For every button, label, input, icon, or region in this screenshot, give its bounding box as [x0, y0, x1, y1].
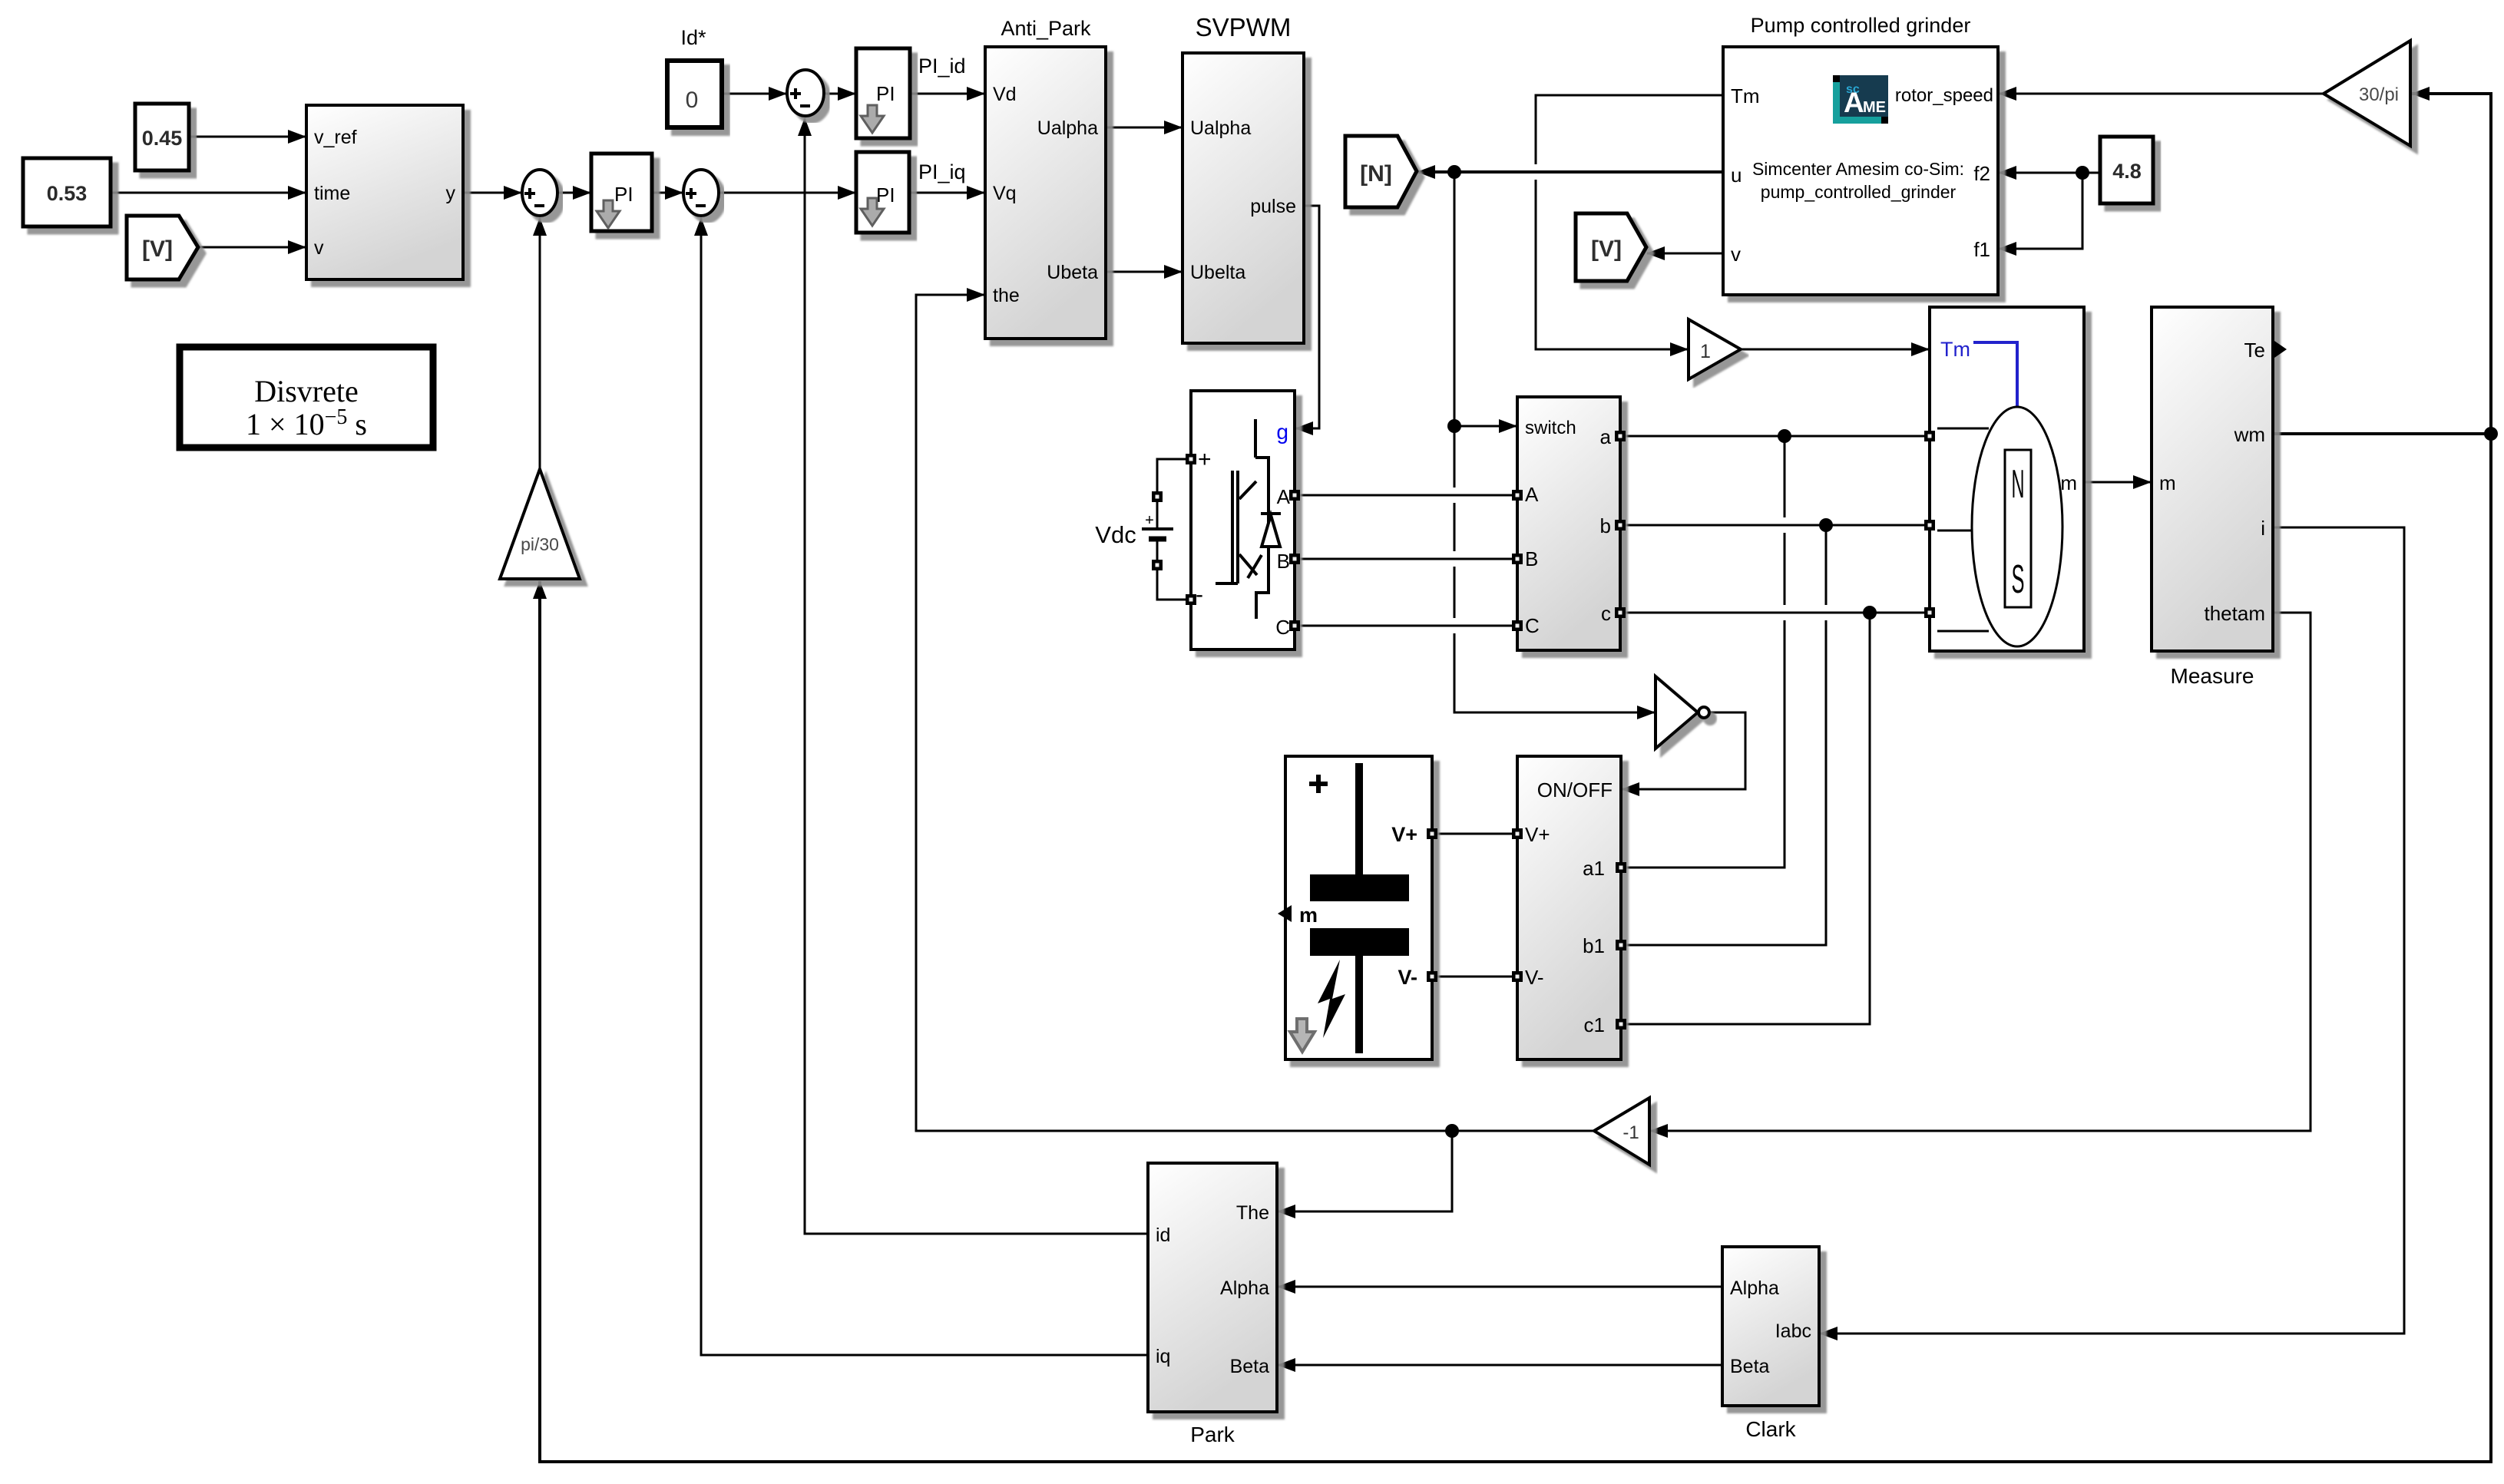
- svg-text:time: time: [314, 183, 350, 204]
- svg-text:PI_iq: PI_iq: [918, 160, 966, 183]
- svg-text:Vq: Vq: [993, 183, 1017, 204]
- svg-text:S: S: [2012, 557, 2025, 602]
- wire switch a to motor A: [1620, 435, 1930, 438]
- node switch branch junction: [1447, 419, 1461, 433]
- WIRES: [1454, 95, 1870, 1024]
- svg-text:Tm: Tm: [1731, 84, 1760, 107]
- svg-text:Iabc: Iabc: [1775, 1320, 1811, 1342]
- lightning bolt: [1318, 960, 1345, 1038]
- svg-text:A: A: [1277, 485, 1291, 508]
- gain pi/30 speed feedback: [500, 469, 580, 579]
- sum S3: [787, 70, 824, 116]
- svg-text:c1: c1: [1584, 1013, 1605, 1036]
- svg-text:Disvrete: Disvrete: [254, 374, 359, 408]
- node f2-f1 junction: [2076, 166, 2089, 180]
- wire wm up to 30/pi gain: [2412, 94, 2491, 434]
- svg-text:Ualpha: Ualpha: [1190, 117, 1251, 139]
- node c phase junction: [1863, 606, 1877, 620]
- svg-text:iq: iq: [1156, 1346, 1170, 1367]
- constant 4.8: [2100, 137, 2153, 203]
- wire y to sum1: [463, 192, 521, 194]
- wire switch b to motor B: [1620, 524, 1930, 527]
- svg-text:C: C: [1525, 614, 1540, 637]
- subsystem switch: [1517, 397, 1620, 650]
- svg-text:[V]: [V]: [1591, 236, 1622, 262]
- svg-text:wm: wm: [2234, 423, 2265, 446]
- svg-text:4.8: 4.8: [2112, 160, 2142, 183]
- svg-text:u: u: [1731, 164, 1742, 187]
- wire u output of grinder to [N] tag: [1417, 170, 1723, 174]
- wire sum2 to PI_iq: [719, 192, 855, 194]
- svg-text:i: i: [2261, 517, 2265, 540]
- PI controller PI1: [591, 154, 652, 231]
- svg-text:Anti_Park: Anti_Park: [1001, 17, 1091, 40]
- inverter bridge block: [1191, 391, 1295, 649]
- gain 1 torque: [1689, 319, 1741, 379]
- svg-text:0.45: 0.45: [142, 127, 183, 150]
- wire [V] tag to v input: [198, 246, 306, 249]
- svg-text:switch: switch: [1525, 418, 1576, 438]
- svg-text:[N]: [N]: [1360, 161, 1392, 187]
- svg-text:PI_id: PI_id: [918, 55, 966, 78]
- wire PI_iq to Vq: [909, 192, 984, 194]
- svg-text:v: v: [1731, 243, 1741, 266]
- svg-text:Alpha: Alpha: [1730, 1277, 1779, 1299]
- svg-text:c: c: [1601, 602, 1611, 625]
- svg-text:Te: Te: [2244, 339, 2265, 362]
- wire Park iq to sum2 bottom: [701, 218, 1148, 1355]
- svg-text:Ubelta: Ubelta: [1190, 262, 1245, 283]
- svg-text:ON/OFF: ON/OFF: [1537, 778, 1613, 801]
- logo AME: [1833, 75, 1888, 124]
- wire u output vertical branch (to switch and NOT gate): [1454, 172, 1655, 712]
- wire gain1 to motor Tm: [1741, 349, 1929, 351]
- svg-text:Beta: Beta: [1230, 1356, 1270, 1377]
- subsystem ON/OFF: [1517, 756, 1621, 1059]
- wire theta branch to Park The: [1278, 1131, 1452, 1211]
- svg-text:m: m: [2060, 471, 2077, 494]
- svg-text:1: 1: [1700, 341, 1711, 362]
- ON/OFF port pads: [1512, 828, 1523, 839]
- wire Vdc battery plus lead: [1157, 459, 1191, 529]
- svg-text:b: b: [1600, 514, 1611, 537]
- svg-text:v: v: [314, 237, 324, 259]
- svg-text:Clark: Clark: [1745, 1417, 1796, 1441]
- wire b1 vertical: [1621, 525, 1826, 945]
- wire Ubeta Anti_Park to SVPWM: [1106, 271, 1182, 273]
- svg-text:C: C: [1275, 616, 1290, 639]
- svg-text:ME: ME: [1863, 99, 1886, 116]
- constant 0.53: [23, 158, 111, 226]
- svg-text:Beta: Beta: [1730, 1356, 1770, 1377]
- wire wm feedback bottom loop to pi/30 gain: [540, 434, 2491, 1462]
- From tag [V] input: [127, 216, 198, 279]
- wire Ualpha Anti_Park to SVPWM: [1106, 127, 1182, 129]
- diode glyph: [1261, 514, 1281, 547]
- svg-text:0: 0: [686, 88, 699, 113]
- svg-text:Pump controlled grinder: Pump controlled grinder: [1751, 14, 1971, 37]
- svg-text:rotor_speed: rotor_speed: [1895, 85, 1993, 106]
- crossover gaps: [1454, 164, 1826, 633]
- switch port pads: [1512, 490, 1523, 501]
- svg-text:Park: Park: [1190, 1423, 1235, 1446]
- svg-text:m: m: [2159, 471, 2176, 494]
- svg-text:SVPWM: SVPWM: [1196, 13, 1292, 41]
- svg-text:f1: f1: [1973, 238, 1990, 261]
- Goto tag [N]: [1345, 136, 1417, 207]
- svg-text:V-: V-: [1398, 966, 1417, 989]
- Vdc source symbol: [1095, 512, 1173, 548]
- wire Tm from grinder vertical: [1536, 95, 1723, 349]
- svg-text:V+: V+: [1391, 823, 1417, 846]
- wire 4.8 to f2: [1999, 172, 2100, 174]
- svg-text:Id*: Id*: [680, 26, 706, 49]
- node theta junction: [1445, 1124, 1459, 1138]
- wire inverter A to switch A: [1295, 494, 1517, 497]
- PI controller PI_id: [856, 48, 910, 138]
- wire Clark Beta to Park Beta: [1278, 1364, 1722, 1367]
- svg-text:B: B: [1525, 547, 1538, 570]
- co-simulation block Pump controlled grinder: [1723, 47, 1998, 295]
- gray down arrow: [1290, 1019, 1315, 1052]
- svg-text:[V]: [V]: [142, 236, 173, 262]
- wire NOT gate output to ON/OFF: [1622, 712, 1745, 789]
- subsystem v_ref/time/v: [306, 105, 463, 279]
- wire inverter C to switch C: [1295, 625, 1517, 627]
- battery block: [1278, 756, 1432, 1059]
- wire theta from -1 gain to Anti_Park the: [916, 295, 1594, 1131]
- motor PMSM block: [1930, 307, 2084, 651]
- svg-text:Vd: Vd: [993, 84, 1017, 105]
- sum S2: [683, 170, 719, 216]
- gain -1 theta: [1594, 1098, 1649, 1165]
- NOT gate: [1656, 676, 1709, 749]
- svg-text:A: A: [1525, 483, 1539, 506]
- battery port pads: [1427, 828, 1437, 839]
- wire PI_id to Vd: [910, 93, 984, 95]
- subsystem SVPWM: [1183, 53, 1304, 343]
- rotor ellipse: [1972, 407, 2062, 646]
- wire inverter B to switch B: [1295, 558, 1517, 560]
- svg-text:PI: PI: [876, 183, 895, 207]
- svg-text:PI: PI: [876, 82, 895, 105]
- svg-text:Ubeta: Ubeta: [1047, 262, 1098, 283]
- annotation Discrete sample time: [180, 347, 433, 448]
- subsystem Park: [1148, 1163, 1277, 1412]
- constant 0.45: [135, 104, 189, 170]
- wire sum3 to PI_id: [823, 93, 855, 95]
- svg-text:-1: -1: [1622, 1122, 1639, 1143]
- node a phase junction: [1778, 429, 1791, 443]
- svg-text:pulse: pulse: [1250, 196, 1296, 217]
- wire 30/pi to rotor_speed: [1999, 93, 2324, 95]
- sum S1: [522, 170, 557, 216]
- svg-text:30/pi: 30/pi: [2359, 84, 2399, 105]
- wire wm output of Measure: [2273, 432, 2491, 435]
- wire i feedback to Clark Iabc: [1820, 527, 2404, 1334]
- svg-text:V+: V+: [1525, 823, 1550, 846]
- wire Clark Alpha to Park Alpha: [1278, 1286, 1722, 1288]
- svg-text:g: g: [1276, 420, 1288, 444]
- subsystem Clark: [1722, 1247, 1819, 1406]
- svg-text:the: the: [993, 285, 1020, 306]
- wire pulse to inverter g: [1295, 206, 1319, 428]
- wire PI1 to sum2: [652, 192, 683, 194]
- stator stubs: [1937, 428, 1989, 430]
- wire Id* 0 to sum3: [722, 93, 786, 95]
- wire 0.45 to v_ref: [189, 136, 306, 138]
- svg-text:Alpha: Alpha: [1220, 1277, 1269, 1299]
- wire motor m to Measure m: [2084, 481, 2151, 484]
- svg-text:f2: f2: [1973, 162, 1990, 185]
- wire c1 vertical: [1621, 613, 1870, 1024]
- svg-text:pi/30: pi/30: [521, 534, 559, 554]
- svg-text:The: The: [1236, 1202, 1269, 1224]
- wire sum1 to PI1: [557, 192, 590, 194]
- gain 30/pi: [2324, 41, 2410, 146]
- svg-text:+: +: [1145, 512, 1154, 529]
- Goto tag [V]: [1576, 213, 1646, 281]
- wire 0.53 to time: [111, 192, 306, 194]
- wire speed feedback into sum1 bottom: [539, 218, 541, 469]
- magnet N S: [2005, 450, 2031, 607]
- wire thetam feedback to -1 gain: [1650, 613, 2310, 1131]
- svg-text:A: A: [1844, 87, 1864, 118]
- wire grinder v to [V] tag: [1647, 253, 1723, 255]
- wire switch c to motor C: [1620, 612, 1930, 614]
- svg-text:b1: b1: [1583, 934, 1605, 957]
- svg-text:y: y: [446, 183, 456, 204]
- wire 4.8 branch to f1: [1999, 173, 2082, 249]
- svg-text:a1: a1: [1583, 857, 1605, 880]
- svg-text:Ualpha: Ualpha: [1037, 117, 1098, 139]
- node wm junction: [2484, 427, 2498, 441]
- constant Id* 0: [667, 61, 722, 127]
- svg-text:id: id: [1156, 1225, 1170, 1246]
- PI controller PI_iq: [856, 152, 909, 233]
- node u-N junction: [1447, 165, 1461, 179]
- Te output port glyph: [2274, 341, 2287, 358]
- svg-text:Tm: Tm: [1940, 338, 1970, 361]
- subsystem Measure: [2152, 307, 2273, 651]
- wire battery V+ to ON/OFF V+: [1432, 833, 1517, 835]
- wire a1 vertical: [1621, 436, 1785, 868]
- wire Vdc battery minus lead: [1157, 539, 1191, 600]
- inverter port pads: [1186, 454, 1196, 464]
- motor port pads: [1924, 431, 1935, 441]
- svg-text:v_ref: v_ref: [314, 127, 357, 148]
- node battery plus pad: [1152, 491, 1163, 502]
- svg-text:PI: PI: [614, 183, 633, 206]
- svg-text:pump_controlled_grinder: pump_controlled_grinder: [1761, 182, 1957, 202]
- node b phase junction: [1819, 518, 1833, 532]
- wire battery V- to ON/OFF V-: [1432, 976, 1517, 978]
- svg-text:-: -: [1196, 582, 1203, 607]
- subsystem Anti_Park: [985, 47, 1106, 339]
- wire Park id to sum3 bottom: [805, 118, 1148, 1234]
- svg-text:1 × 10−5 s: 1 × 10−5 s: [246, 405, 367, 441]
- svg-text:m: m: [1299, 904, 1318, 927]
- svg-text:0.53: 0.53: [47, 182, 88, 205]
- svg-text:+: +: [1198, 447, 1212, 472]
- svg-text:Measure: Measure: [2171, 664, 2254, 688]
- wire u branch to switch input: [1454, 425, 1517, 428]
- svg-text:Vdc: Vdc: [1095, 521, 1136, 548]
- svg-text:V-: V-: [1525, 966, 1544, 989]
- svg-text:B: B: [1277, 550, 1290, 573]
- node battery minus pad: [1152, 560, 1163, 570]
- svg-text:a: a: [1600, 425, 1612, 448]
- svg-text:thetam: thetam: [2205, 602, 2266, 625]
- svg-text:N: N: [2012, 462, 2025, 507]
- transistor IGBT glyph: [1216, 419, 1269, 619]
- svg-text:Simcenter Amesim co-Sim:: Simcenter Amesim co-Sim:: [1752, 159, 1964, 179]
